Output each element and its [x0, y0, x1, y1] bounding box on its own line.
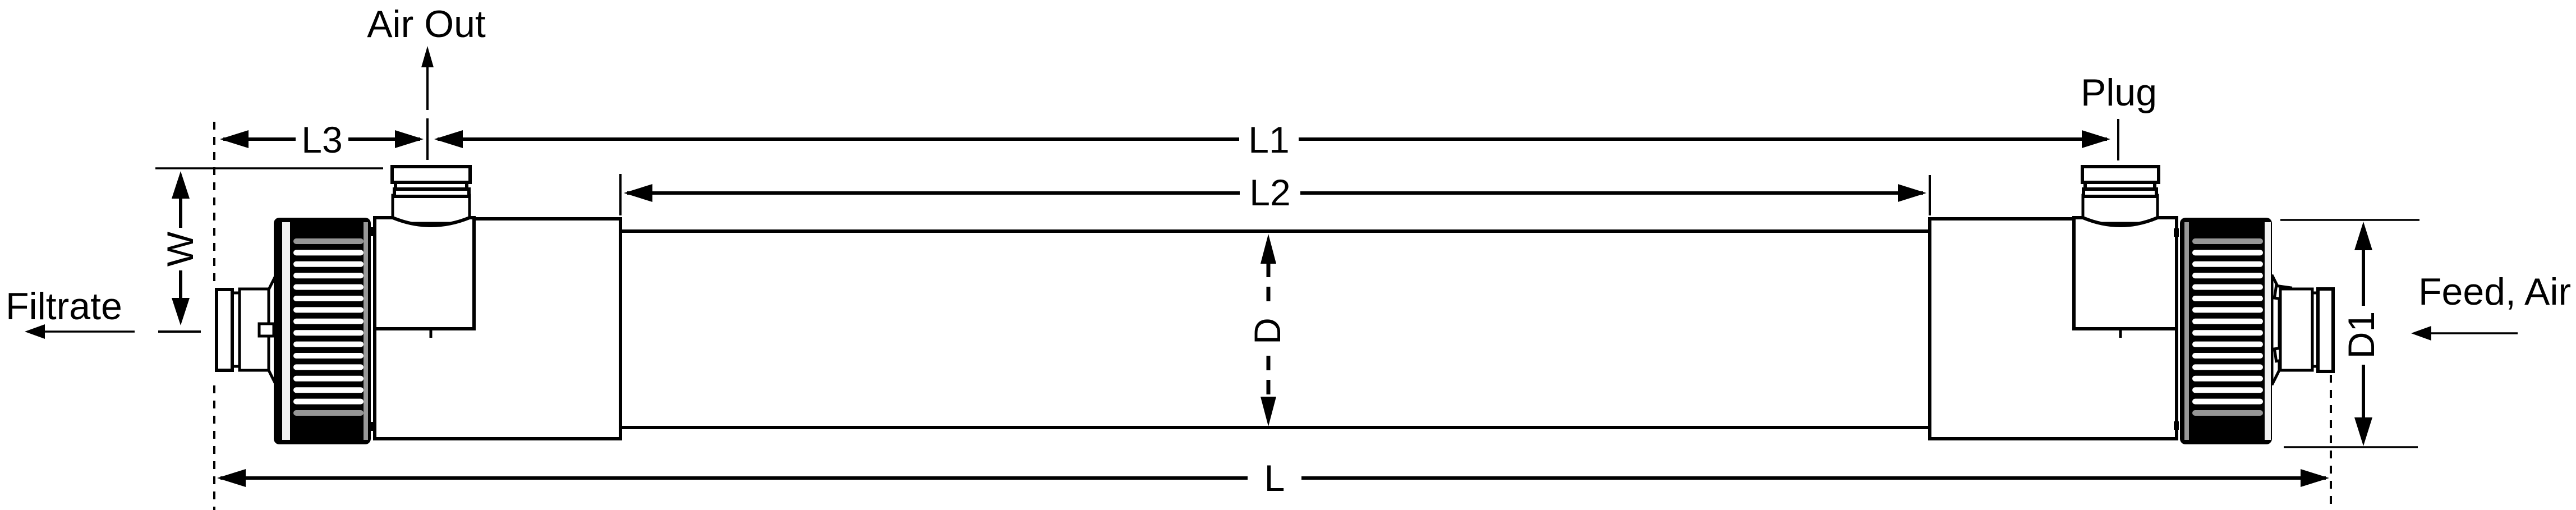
left collar body: [274, 218, 371, 444]
dimension L1: [434, 130, 2110, 148]
left boss block: [375, 218, 474, 329]
feed port ring: [2312, 293, 2318, 366]
filtrate port body: [240, 289, 269, 370]
filtrate port cap: [217, 290, 232, 370]
air out port ring 2: [394, 189, 469, 196]
plug port ring 1: [2085, 182, 2155, 189]
svg-text:Air Out: Air Out: [367, 3, 486, 45]
svg-text:W: W: [159, 231, 201, 267]
feed port cone: [2272, 275, 2279, 385]
housing notch bottom right: [2174, 421, 2179, 430]
feed flow arrow: [2411, 326, 2518, 341]
plug port neck: [2083, 195, 2158, 223]
svg-text:Feed, Air: Feed, Air: [2418, 270, 2571, 313]
dimension L: [217, 469, 2329, 487]
right collar white stripe: [2265, 222, 2271, 440]
svg-text:D1: D1: [2340, 311, 2382, 359]
D1 bottom reference line: [2284, 446, 2418, 448]
air out arrow: [421, 46, 434, 110]
filtrate flow arrow: [25, 324, 135, 339]
dimension L2: [620, 174, 1930, 215]
right extent dashed line: [2330, 375, 2332, 510]
svg-text:L2: L2: [1249, 172, 1290, 213]
dimension W arrow: [172, 171, 190, 325]
svg-text:D: D: [1246, 318, 1288, 344]
svg-text:L3: L3: [301, 119, 342, 160]
right collar gray stripe: [2184, 222, 2189, 440]
air out port cap: [392, 167, 470, 182]
left collar gray stripe: [364, 222, 368, 440]
left end-cap housing: [375, 219, 620, 439]
W top reference line: [155, 167, 383, 169]
svg-text:L1: L1: [1248, 119, 1289, 160]
housing notch top right: [2174, 228, 2179, 237]
left boss bottom tick: [430, 329, 433, 338]
plug port ring 2: [2083, 189, 2156, 196]
air out leader tick: [426, 118, 429, 160]
air out port ring 1: [395, 182, 467, 189]
left collar white stripe: [282, 222, 290, 440]
right collar body: [2180, 218, 2272, 444]
feed port body: [2280, 289, 2312, 370]
plug port cap: [2082, 167, 2159, 182]
left collar slots: [293, 238, 364, 416]
main membrane tube: [620, 231, 1930, 428]
filtrate port cone: [269, 275, 276, 385]
W bottom reference line: [158, 330, 201, 333]
housing notch bottom left: [370, 422, 375, 431]
left extent dashed line lower: [213, 385, 215, 510]
right end-cap housing: [1930, 219, 2177, 439]
feed port tab bottom: [2275, 347, 2291, 361]
svg-text:Filtrate: Filtrate: [6, 285, 122, 328]
svg-text:L: L: [1264, 457, 1285, 499]
housing notch top left: [370, 227, 375, 236]
left extent dashed line upper: [213, 122, 215, 283]
svg-text:Plug: Plug: [2081, 71, 2157, 114]
D1 top reference line: [2280, 219, 2419, 221]
feed port tab top: [2275, 286, 2291, 300]
dimension D dashed arrow: [1261, 234, 1276, 426]
right boss block: [2074, 218, 2177, 329]
filtrate port ring: [232, 293, 240, 366]
dimension L3: [220, 130, 424, 148]
filtrate port tab: [259, 324, 274, 336]
feed port cap: [2318, 289, 2333, 371]
dimension D1 arrow: [2354, 222, 2372, 446]
right boss bottom tick: [2119, 329, 2122, 338]
right collar slots: [2192, 238, 2263, 416]
air out port neck: [393, 195, 470, 223]
plug leader tick: [2117, 119, 2119, 160]
